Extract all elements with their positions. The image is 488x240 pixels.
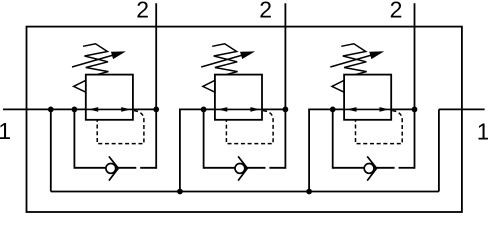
adjustable spring of R2: [212, 44, 237, 75]
flow path double arrow inside R2: [215, 108, 262, 112]
wire: check-valve branch drop, regulator 3: [332, 109, 334, 168]
spring adjustment arrow of R1: [72, 52, 124, 67]
wire: check-valve line, regulator 2: [204, 167, 248, 169]
junction: reg1 supply drop on main line: [48, 107, 54, 113]
pressure regulator body R3: [344, 75, 391, 120]
adjustable spring of R1: [83, 44, 108, 75]
pressure regulator body R1: [86, 75, 133, 120]
manifold block frame: [27, 27, 462, 212]
wire: check-valve line to riser, regulator 2: [269, 167, 285, 169]
wire: right supply riser: [438, 109, 440, 191]
junction: check branch tap, regulator 2: [201, 107, 207, 113]
pilot line (dashed), regulator 3: [356, 111, 403, 144]
junction: check branch tap, regulator 1: [72, 107, 78, 113]
junction: regulator 3 feed on bottom rail: [306, 189, 312, 195]
svg-text:2: 2: [259, 0, 272, 23]
wire: regulator 2 output line to port 2 junction: [262, 108, 285, 110]
wire: port 1 supply line (left): [3, 108, 86, 110]
check valve (ball and seat), regulator 2: [235, 156, 247, 180]
wire: port 2 line of regulator 2: [284, 3, 286, 169]
wire: check-valve line right segment, regulator 2: [247, 167, 265, 169]
wire: check-valve line, regulator 3: [333, 167, 377, 169]
wire: regulator 1 output line to port 2 junction: [133, 108, 156, 110]
svg-text:1: 1: [477, 119, 488, 145]
wire: port 1 supply line (right): [439, 108, 485, 110]
svg-text:2: 2: [136, 0, 149, 23]
flow path double arrow inside R1: [86, 108, 133, 112]
wire: check-valve line to riser, regulator 1: [140, 167, 156, 169]
wire: regulator 1 supply drop: [50, 109, 52, 191]
svg-text:1: 1: [0, 118, 11, 144]
vent (relief) triangle of R1: [74, 80, 86, 92]
wire: check-valve line right segment, regulator 3: [377, 167, 395, 169]
wire: port 2 line of regulator 1: [155, 3, 157, 169]
flow path double arrow inside R3: [344, 108, 391, 112]
wire: check-valve branch drop, regulator 1: [73, 109, 75, 168]
junction: check branch tap, regulator 3: [330, 107, 336, 113]
wire: regulator 2 input feed from rail: [180, 109, 215, 191]
check valve (ball and seat), regulator 1: [106, 156, 118, 180]
vent (relief) triangle of R2: [203, 80, 215, 92]
junction: port 2 node of regulator 2: [283, 107, 289, 113]
wire: check-valve line, regulator 1: [74, 167, 118, 169]
wire: regulator 3 input feed from rail: [309, 109, 344, 191]
check valve (ball and seat), regulator 3: [364, 156, 376, 180]
junction: port 2 node of regulator 1: [153, 107, 159, 113]
vent (relief) triangle of R3: [332, 80, 344, 92]
junction: port 2 node of regulator 3: [412, 107, 418, 113]
svg-text:2: 2: [390, 0, 403, 23]
spring adjustment arrow of R2: [201, 52, 253, 67]
spring adjustment arrow of R3: [330, 52, 382, 67]
wire: port 2 line of regulator 3: [414, 3, 416, 169]
adjustable spring of R3: [341, 44, 366, 75]
wire: regulator 3 output line to port 2 junction: [391, 108, 414, 110]
junction: regulator 2 feed on bottom rail: [177, 189, 183, 195]
wire: check-valve line to riser, regulator 3: [399, 167, 415, 169]
wire: check-valve line right segment, regulator 1: [118, 167, 136, 169]
pilot line (dashed), regulator 2: [226, 111, 273, 144]
pressure regulator body R2: [215, 75, 262, 120]
pilot line (dashed), regulator 1: [97, 111, 144, 144]
wire: check-valve branch drop, regulator 2: [203, 109, 205, 168]
wire: bottom supply rail: [51, 191, 439, 193]
